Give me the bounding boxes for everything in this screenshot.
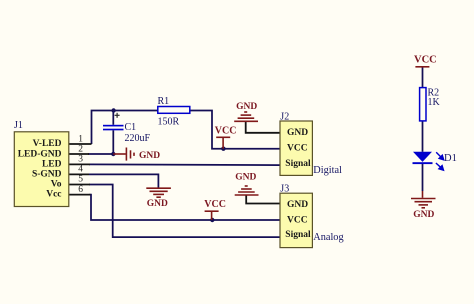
svg-text:J3: J3	[280, 184, 289, 195]
svg-text:GND: GND	[236, 102, 257, 112]
svg-text:Vcc: Vcc	[46, 190, 61, 200]
svg-text:1: 1	[78, 134, 83, 144]
svg-text:LED-GND: LED-GND	[18, 149, 62, 159]
svg-text:150R: 150R	[158, 116, 180, 127]
svg-text:R1: R1	[158, 96, 170, 107]
svg-text:GND: GND	[287, 128, 308, 138]
svg-text:GND: GND	[139, 151, 160, 161]
svg-text:GND: GND	[147, 199, 168, 209]
svg-text:2: 2	[78, 144, 83, 154]
svg-text:Analog: Analog	[313, 232, 343, 243]
svg-text:Signal: Signal	[285, 159, 311, 169]
svg-text:GND: GND	[413, 210, 434, 220]
svg-text:3: 3	[78, 155, 83, 165]
svg-text:J1: J1	[14, 120, 23, 131]
svg-text:C1: C1	[125, 122, 137, 133]
svg-text:Digital: Digital	[313, 165, 342, 176]
svg-text:1K: 1K	[428, 97, 441, 108]
svg-text:Signal: Signal	[285, 230, 311, 240]
svg-text:6: 6	[78, 185, 83, 195]
svg-text:5: 5	[78, 175, 83, 185]
svg-text:VCC: VCC	[215, 125, 237, 136]
svg-text:GND: GND	[287, 200, 308, 210]
svg-text:VCC: VCC	[287, 215, 308, 225]
svg-text:4: 4	[78, 165, 83, 175]
svg-text:VCC: VCC	[204, 199, 226, 210]
svg-text:J2: J2	[280, 111, 289, 122]
svg-text:220uF: 220uF	[125, 133, 151, 144]
svg-text:D1: D1	[444, 153, 457, 164]
svg-text:Vo: Vo	[51, 180, 62, 190]
svg-text:VCC: VCC	[287, 144, 308, 154]
svg-text:S-GND: S-GND	[32, 170, 62, 180]
svg-text:VCC: VCC	[414, 54, 437, 65]
svg-text:V-LED: V-LED	[33, 139, 62, 149]
svg-text:LED: LED	[42, 159, 62, 169]
svg-text:GND: GND	[235, 173, 256, 183]
